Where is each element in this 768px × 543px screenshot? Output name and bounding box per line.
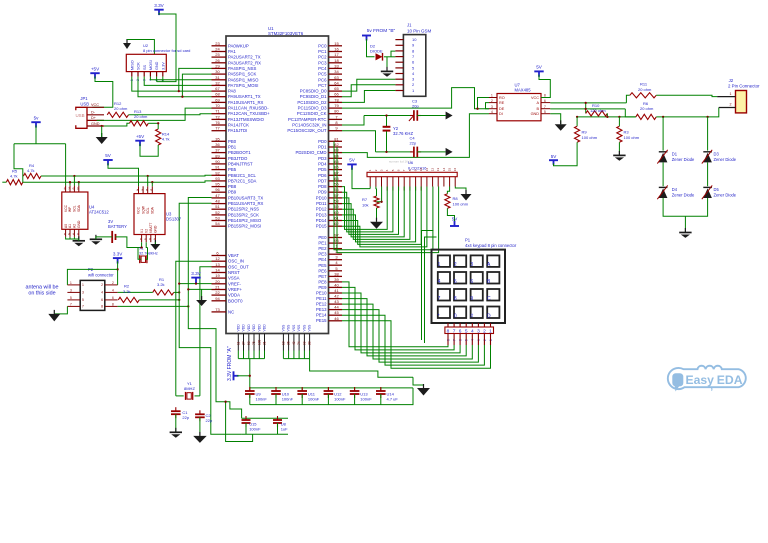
U1 right pin 9 PC15OSC32K_OUT [329,130,343,132]
wire U7 RE-DE tie [486,103,490,109]
capacitor C2 22p [199,410,201,414]
U1 right pin 18 PC3 [329,62,343,64]
svg-text:PB11USART3_RX: PB11USART3_RX [228,201,264,206]
svg-text:EDA: EDA [717,373,743,387]
J1 pin 4 [395,73,403,75]
svg-text:antena will be: antena will be [26,284,59,290]
svg-text:PE13: PE13 [316,307,327,312]
U1 left pin 96 PB9 [212,191,227,193]
svg-text:6: 6 [112,296,114,300]
svg-text:10: 10 [419,168,423,172]
svg-text:VDD: VDD [236,324,240,332]
svg-text:PE5: PE5 [318,263,327,268]
resistor R7 10k [374,196,379,208]
svg-text:69: 69 [215,97,220,102]
wire GND jog to R13 [104,123,129,126]
P2 pin 4 [105,291,118,293]
U1 right pin 78 PC10SDIO_D2 [329,101,343,103]
capacitor U15 100nF [245,418,247,420]
svg-text:X2: X2 [144,229,148,233]
svg-text:GND: GND [91,122,100,126]
svg-text:RO: RO [499,96,505,100]
resistor R9 100 ohm [576,116,578,118]
U1 right pin 62 PD15 [329,225,343,227]
U1 right pin 4 PE5 [329,264,343,266]
wire PD10 to LCD [342,187,399,235]
svg-text:48: 48 [215,199,220,204]
U7 pin 2 RE [489,102,497,104]
U1 right pin 17 PC2 [329,56,343,58]
U1 left pin 52 PB13SPI2_SCK [212,214,227,216]
wire R10 right drop [606,113,608,117]
svg-text:PB1: PB1 [228,145,237,150]
wire D2 jog to J1 pin8 [391,51,395,57]
U1 right pin 15 PC0 [329,45,343,47]
wire lower-left hook [226,402,253,442]
battery BT1 symbol [111,231,113,243]
wire D+ to PA11 [97,108,212,120]
resistor R1 3.2k [153,290,174,295]
U1 right pin 41 PE10 [329,292,343,294]
wire P2 pin7 to ground [54,306,67,314]
svg-text:73: 73 [215,307,220,312]
U1 right pin 16 PC1 [329,51,343,53]
wire riser to PA5 [182,74,211,97]
U1 right pin 65 PC8SDIO_D0 [329,90,343,92]
arrow ground above U2 [126,39,128,43]
svg-text:DE: DE [499,107,505,111]
svg-text:*: * [438,313,440,319]
arrow ground P2 [53,310,55,314]
JP1 pin D+ [87,119,104,121]
wire rail left step [14,144,23,183]
U3 pin 8 VCC [138,186,140,193]
svg-text:54: 54 [215,221,220,226]
svg-text:PB14SPI2_MISO: PB14SPI2_MISO [228,218,262,223]
svg-text:PE6: PE6 [318,268,327,273]
svg-text:J1: J1 [407,22,412,27]
svg-text:22p: 22p [410,141,417,146]
svg-text:D5: D5 [714,187,720,192]
U1 right pin 97 PE0 [329,237,343,239]
svg-text:4.7 uF: 4.7 uF [387,397,399,402]
svg-text:PE15: PE15 [316,318,327,323]
wire PE10 to keypad [342,293,460,353]
svg-text:PA5SPI1_SCK: PA5SPI1_SCK [228,72,256,77]
svg-text:MOSI: MOSI [149,60,153,70]
U1 right pin 85 PD4 [329,163,343,165]
U4 pin 2 A1 [69,229,71,237]
svg-text:C: C [487,296,491,302]
wire LCD pin16 to arrow gnd [455,187,466,195]
svg-text:80: 80 [334,109,339,114]
svg-text:VCC: VCC [137,206,141,214]
junction SDA-U3 [151,181,153,183]
svg-text:82: 82 [334,142,339,147]
svg-text:92: 92 [215,170,220,175]
svg-text:R8: R8 [453,196,459,201]
svg-text:VDD: VDD [247,324,251,332]
svg-text:36: 36 [215,142,220,147]
wire P2 pin1 loop [67,269,117,285]
svg-text:5v FROM "B": 5v FROM "B" [367,28,396,34]
U1 right pin 46 PE15 [329,320,343,322]
svg-text:45: 45 [334,310,339,315]
svg-text:4.7k: 4.7k [162,137,170,142]
svg-text:5: 5 [454,279,457,285]
svg-text:2 Pin Connector: 2 Pin Connector [728,83,760,88]
U1 left pin 90 PB4NJTRST [212,163,227,165]
svg-text:64: 64 [334,80,339,85]
junction SCL-U3 [147,175,149,177]
svg-text:VREF+: VREF+ [228,287,242,292]
wire PD12 to LCD [342,187,410,240]
U1 left pin 76 PA14JTCK [212,124,227,126]
svg-text:8: 8 [112,303,114,307]
U1 right pin 3 PE4 [329,259,343,261]
svg-text:5V: 5V [105,153,112,158]
wire C2 to ground [199,417,201,436]
svg-text:OSC_OUT: OSC_OUT [228,264,249,269]
wire PD11 to LCD [342,187,404,237]
U1 right pin 55 PD8 [329,186,343,188]
svg-text:99: 99 [303,341,307,345]
wire C3 line right with arrow [417,115,445,117]
svg-text:41: 41 [334,288,339,293]
svg-text:5: 5 [82,298,84,302]
wire battery to X1 [116,237,142,248]
svg-text:D1: D1 [672,152,678,157]
U1 left pin 25 PA2USART2_TX [212,56,227,58]
U6 pin 13 [437,177,439,187]
U6 pin 1 [369,177,371,187]
P1 strip top stub 4 [465,323,467,327]
svg-text:21: 21 [215,285,220,290]
svg-text:on this side: on this side [28,291,55,297]
svg-text:38: 38 [334,271,339,276]
ground U4 [78,236,80,241]
svg-text:5v: 5v [34,115,40,120]
P2 pin 5 [67,299,80,301]
resistor R10 120 ohm [585,103,587,114]
wire U7 A line [550,102,626,104]
svg-text:72: 72 [215,114,220,119]
resistor R14 4.7k [156,129,161,145]
svg-text:5V: 5V [349,158,356,163]
U1 right pin 43 PE12 [329,303,343,305]
wire D2 ground stem [386,57,388,72]
wire JP1 GND to ground [101,126,103,137]
svg-text:4.7k: 4.7k [27,168,35,173]
svg-text:PD2SDIO_CMD: PD2SDIO_CMD [295,150,326,155]
svg-text:65: 65 [334,86,339,91]
U1 right pin 7 PC13TAMPER-RTC [329,118,343,120]
wire crystal left loop [138,248,141,260]
svg-text:2: 2 [491,99,493,103]
U6 pin 12 [432,177,434,187]
svg-text:WP: WP [68,206,72,212]
svg-text:USB: USB [76,113,85,118]
wire U7 RO hook [478,98,490,109]
svg-text:PD8: PD8 [318,184,327,189]
U1 left pin 93 PB7I2C1_SDA [212,180,227,182]
junction SDA-U4 [78,181,80,183]
svg-text:1uF: 1uF [281,426,288,431]
capacitor U9 100nF [249,388,251,391]
svg-text:PC13TAMPER-RTC: PC13TAMPER-RTC [288,117,327,122]
svg-text:PC8SDIO_D0: PC8SDIO_D0 [300,89,327,94]
svg-text:51: 51 [215,204,220,209]
svg-text:PB12SPI2_NSS: PB12SPI2_NSS [228,207,259,212]
svg-text:12: 12 [431,168,435,172]
svg-text:6: 6 [544,99,546,103]
svg-text:PB8: PB8 [228,184,237,189]
U6 pin 4 [386,177,388,191]
svg-text:PB15SPI2_MOSI: PB15SPI2_MOSI [228,224,261,229]
wire U2 MISO to PA8 [132,77,212,92]
wire B drop to R6 line [625,109,636,117]
svg-text:5: 5 [70,296,72,300]
svg-text:4: 4 [438,279,441,285]
svg-text:R3: R3 [624,129,630,134]
P1 strip top stub 8 [490,323,492,327]
U1 left pin 94 BOOT0 [212,300,227,302]
svg-text:AT24C512: AT24C512 [89,210,109,215]
wire PC11 to U7 DE [342,88,489,109]
svg-text:wifi connector: wifi connector [88,273,114,278]
svg-text:R11: R11 [640,82,648,87]
svg-text:A0: A0 [64,224,68,228]
wire J1 pin1 to PC10 [342,91,395,103]
svg-text:#: # [470,313,473,319]
svg-text:100nF: 100nF [282,397,294,402]
U4 pin 7 WP [69,186,71,192]
svg-text:96: 96 [215,187,220,192]
svg-text:PD1: PD1 [318,145,327,150]
diode D5 Zener [703,186,712,188]
svg-text:19: 19 [215,273,220,278]
svg-text:39: 39 [334,277,339,282]
wire R14 to +5V [140,144,158,157]
U1 left pin 71 PA12CAN_TXUSBD+ [212,113,227,115]
wire VSS comb [282,351,284,359]
svg-text:26: 26 [215,58,220,63]
svg-text:PC4: PC4 [318,66,327,71]
P2 pin 2 [105,284,118,286]
wire D1-D4 [662,162,664,186]
wire keypad aux 1 [422,231,434,341]
U1 bottom pin VDD_1 [237,334,239,351]
svg-text:10: 10 [282,341,286,345]
svg-text:MAX485: MAX485 [515,88,532,93]
U1 left pin 29 PA4SPI1_NSS [212,67,227,69]
U1 right pin 87 PD6 [329,174,343,176]
svg-text:SCK: SCK [137,62,141,70]
U1 bottom pin VSS_6 [309,334,311,351]
wire R2 right to PB11 column [139,299,179,301]
svg-text:PA15JTDI: PA15JTDI [228,128,247,133]
svg-text:VCC: VCC [91,103,99,107]
svg-text:13: 13 [215,262,220,267]
wire to ground arrow [413,377,424,388]
ground C1 [175,428,177,433]
svg-text:DI: DI [499,112,503,116]
svg-text:1: 1 [70,281,72,285]
U7 pin 1 RO [489,97,497,99]
svg-text:16: 16 [334,47,339,52]
wire PE12 to keypad [342,304,472,359]
svg-text:30: 30 [215,69,220,74]
svg-text:4x4 keypad 8 pin connector: 4x4 keypad 8 pin connector [465,243,517,248]
resistor R12 20 ohm [107,112,128,117]
wire OSC_OUT line [200,267,212,396]
U6 pin 11 [426,177,428,187]
U1 right pin 60 PD13 [329,214,343,216]
U1 right pin 44 PE13 [329,309,343,311]
svg-text:20 ohm: 20 ohm [638,87,652,92]
svg-text:PB0: PB0 [228,139,237,144]
wire U2 3.3V pin [162,77,164,82]
U3 pin 4 GND [154,235,156,243]
svg-text:10k: 10k [362,202,368,207]
U6 pin 7 [403,177,405,191]
svg-text:12: 12 [215,256,220,261]
U1 right pin 34 PC5 [329,73,343,75]
svg-text:50: 50 [247,341,251,345]
U4 pin 4 GND [78,229,80,237]
P2 pin 6 [105,299,118,301]
svg-text:7: 7 [438,296,441,302]
svg-text:PD3: PD3 [318,156,327,161]
svg-text:7: 7 [544,105,546,109]
wire D2 to J1 pin7 [384,56,396,58]
svg-text:PE4: PE4 [318,257,327,262]
P1 key A [487,255,499,267]
svg-text:1: 1 [491,94,493,98]
U7 pin 7 B [541,108,550,110]
U1 right pin 80 PC12SDIO_CK [329,113,343,115]
P1 key C [487,289,499,301]
svg-text:26: 26 [287,341,291,345]
svg-text:22: 22 [215,290,220,295]
U4 pin 3 A2 [73,229,75,237]
svg-text:47: 47 [215,193,220,198]
JP1 pin VCC [87,106,104,108]
J1 pin 8 [395,50,403,52]
U1 left pin 53 PB14SPI2_MISO [212,220,227,222]
svg-text:PD6: PD6 [318,173,327,178]
wire U2 GND stub [156,77,158,82]
svg-text:D4: D4 [672,187,678,192]
svg-text:PC12SDIO_CK: PC12SDIO_CK [297,111,327,116]
svg-text:VSS: VSS [292,324,296,332]
svg-text:20: 20 [308,341,312,345]
P1 strip top stub 1 [447,323,449,327]
U1 right pin 33 PC4 [329,67,343,69]
wire PE15 to keypad [342,321,491,368]
J1 pin 9 [395,44,403,46]
svg-text:PB2BOOT1: PB2BOOT1 [228,150,251,155]
svg-text:17: 17 [334,52,339,57]
svg-text:B: B [487,279,491,285]
U1 right pin 98 PE1 [329,242,343,244]
U7 pin 8 VCC [541,97,550,99]
arrow ground JP1 GND [101,133,103,137]
wire VDD comb [237,351,239,359]
svg-text:VSS: VSS [287,324,291,332]
J2 pin 2 [719,107,736,109]
P1 key B [487,272,499,284]
wire VREF+ ground stem [201,289,203,300]
svg-text:SQW: SQW [141,205,145,214]
capacitor U13 100nF [354,388,356,391]
wire PD0 to LCD pin12 [334,141,433,250]
wire battery to ground [96,237,112,239]
svg-text:PA3USART2_RX: PA3USART2_RX [228,60,261,65]
svg-text:16: 16 [453,168,457,172]
svg-text:VCC: VCC [64,204,68,212]
arrow ground U3 GND [154,240,156,244]
svg-text:20 ohm: 20 ohm [640,106,654,111]
svg-text:23: 23 [215,41,220,46]
wire U4 SCL up [73,176,75,186]
U1 left pin 68 PA9USART1_TX [212,96,227,98]
svg-text:76: 76 [215,120,220,125]
U1 bottom pin VDD_6 [264,334,266,351]
svg-text:PC10SDIO_D2: PC10SDIO_D2 [297,100,327,105]
svg-text:3: 3 [470,262,473,268]
svg-text:2: 2 [101,283,103,287]
wire LCD pin2 to R7 [375,187,378,189]
svg-text:5V: 5V [536,65,543,70]
svg-text:35: 35 [215,136,220,141]
svg-text:PA2USART2_TX: PA2USART2_TX [228,55,261,60]
wire PE14 to keypad [342,315,484,365]
svg-text:93: 93 [215,176,220,181]
svg-text:79: 79 [334,103,339,108]
wire rail horizontal [14,143,66,145]
wire C3 line [364,115,412,117]
U1 left pin 95 PB8 [212,186,227,188]
wire U4 SDA up [78,182,80,185]
wire 5V to U3 VCC [108,163,139,186]
svg-text:+5V: +5V [136,134,145,139]
wire D3 column [706,116,708,118]
wire 3.3V-A to bus column [237,375,250,377]
svg-text:13: 13 [436,168,440,172]
wire P2 pin8 line [118,305,189,307]
svg-text:22p: 22p [182,415,189,420]
svg-text:PA9USART1_TX: PA9USART1_TX [228,94,261,99]
svg-text:22p: 22p [206,418,213,423]
U1 right pin 2 PE3 [329,253,343,255]
svg-text:37: 37 [215,148,220,153]
U1 right pin 84 PD3 [329,157,343,159]
svg-text:15: 15 [448,168,452,172]
U3 pin 7 SQW [142,186,144,193]
wire PE8 to keypad [342,282,448,347]
U1 right pin 5 PE6 [329,270,343,272]
U1 right pin 81 PD0 [329,140,343,142]
svg-text:32.76 KHZ: 32.76 KHZ [393,131,413,136]
U1 left pin 89 PB3JTDO [212,157,227,159]
P2 pin 1 [67,284,80,286]
U1 right pin 59 PD12 [329,208,343,210]
svg-text:PC15OSC32K_OUT: PC15OSC32K_OUT [287,128,327,133]
wire R9 to 5V [554,142,578,166]
U6 pin 2 [375,177,377,187]
svg-text:D+: D+ [91,116,97,120]
